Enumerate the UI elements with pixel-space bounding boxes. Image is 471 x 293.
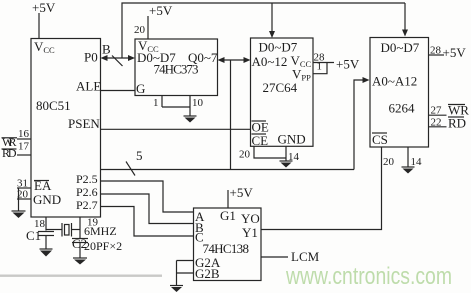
svg-text:5: 5	[136, 148, 143, 163]
wire ALE to G	[101, 90, 136, 92]
svg-text:1: 1	[317, 61, 323, 73]
wire xtal right	[72, 229, 81, 231]
wire G2A stub	[177, 260, 194, 262]
ground (27C64)	[280, 160, 293, 162]
svg-text:+5V: +5V	[149, 3, 173, 18]
bus Q0~7 to A0~12 (double arrow)	[221, 59, 248, 61]
wire address bus up to 6264 A0~A12	[354, 80, 364, 170]
svg-text:GND: GND	[278, 132, 306, 147]
ground (80C51 GND)	[12, 210, 26, 212]
svg-text:G2B: G2B	[195, 266, 220, 281]
svg-text:G: G	[136, 81, 145, 96]
wire P2.7	[101, 207, 194, 237]
svg-text:B: B	[102, 42, 111, 57]
IC U4 6264 box	[370, 38, 429, 148]
svg-text:6MHZ: 6MHZ	[84, 224, 117, 238]
svg-text:80C51: 80C51	[36, 98, 71, 113]
wire address junction down	[230, 60, 232, 170]
svg-text:GND: GND	[33, 192, 61, 207]
wire Vcc stub (6264)	[429, 54, 445, 56]
svg-text:16: 16	[18, 128, 30, 140]
svg-text:P2.7: P2.7	[76, 198, 98, 212]
wire PSEN to OE	[101, 128, 251, 130]
wire GND stem (27C64)	[285, 146, 287, 161]
ground (6264)	[402, 166, 415, 168]
crystal Y1 6MHZ	[61, 223, 63, 237]
bus B: P0 to 74HC373 (double arrow)	[104, 57, 132, 59]
svg-text:G1: G1	[220, 208, 236, 223]
svg-text:P2.6: P2.6	[76, 185, 98, 199]
svg-text:Y1: Y1	[242, 225, 258, 240]
svg-text:A0~A12: A0~A12	[372, 74, 417, 89]
svg-text:10: 10	[192, 97, 204, 109]
svg-text:20: 20	[134, 24, 146, 36]
svg-text:D0~D7: D0~D7	[381, 40, 420, 55]
wire P2.6	[101, 194, 194, 224]
svg-text:20: 20	[239, 149, 251, 161]
svg-text:CS: CS	[372, 132, 388, 147]
wire pins 1-10 joined	[162, 106, 190, 108]
wire G2B stub	[177, 272, 194, 274]
svg-text:74HC373: 74HC373	[154, 62, 199, 77]
IC U3 27C64 box	[251, 38, 314, 146]
svg-text:+5V: +5V	[443, 45, 467, 60]
svg-text:A0~12: A0~12	[252, 54, 288, 69]
svg-text:+5V: +5V	[230, 185, 254, 200]
wire OE stub	[429, 126, 447, 128]
wire CS down to Y1	[261, 147, 382, 230]
bus 5: P2.0~P2.4 address lines	[101, 169, 355, 171]
wire G2 to ground	[176, 261, 178, 286]
wire +5V to Vcc	[38, 13, 40, 39]
svg-text:1: 1	[153, 97, 159, 109]
wire data bus corner down into 6264	[404, 3, 406, 31]
svg-text:RD: RD	[448, 116, 466, 131]
svg-text:www.cntronics.com: www.cntronics.com	[285, 263, 452, 290]
wire EA/GND to ground	[18, 188, 20, 211]
svg-text:LCM: LCM	[291, 249, 320, 264]
wire CE to ground	[254, 146, 286, 158]
svg-text:20PF×2: 20PF×2	[84, 239, 122, 253]
wire WE stub	[429, 114, 447, 116]
svg-text:74HC138: 74HC138	[203, 241, 250, 256]
svg-text:+5V: +5V	[32, 0, 56, 15]
IC U1 80C51 box	[31, 39, 101, 218]
ground (C2)	[73, 257, 87, 259]
svg-text:CE: CE	[252, 133, 269, 148]
bus slash (B)	[112, 56, 123, 67]
svg-text:20: 20	[383, 156, 395, 168]
svg-text:YO: YO	[241, 211, 260, 226]
svg-text:6264: 6264	[389, 101, 416, 116]
svg-text:27C64: 27C64	[263, 80, 298, 95]
IC U2 74HC373 box	[135, 39, 218, 96]
svg-text:+5V: +5V	[336, 57, 360, 72]
wire GND stem (6264)	[407, 147, 409, 167]
svg-text:P0: P0	[84, 50, 98, 65]
scan artifact gray band bottom-left	[0, 275, 162, 277]
IC U5 74HC138 box	[194, 208, 262, 281]
svg-text:14: 14	[411, 156, 423, 168]
svg-text:ALE: ALE	[76, 79, 101, 94]
wire data bus down-arrow into 27C64	[271, 3, 273, 32]
wire Vcc/Vpp bracket to +5V	[313, 62, 334, 64]
ground (74HC138 G2)	[170, 285, 183, 287]
bus slash (5)	[126, 162, 135, 176]
wire P0 bus up to top data bus	[122, 3, 405, 58]
ground (74HC373)	[184, 115, 197, 117]
wire P2.5	[101, 181, 194, 212]
svg-text:PSEN: PSEN	[68, 116, 100, 131]
svg-text:RD: RD	[2, 146, 17, 160]
wire Y2 to LCM	[261, 256, 288, 258]
ground (C1)	[40, 248, 53, 250]
svg-text:17: 17	[18, 141, 30, 153]
svg-text:P2.5: P2.5	[76, 172, 98, 186]
wire xtal left	[46, 229, 62, 231]
